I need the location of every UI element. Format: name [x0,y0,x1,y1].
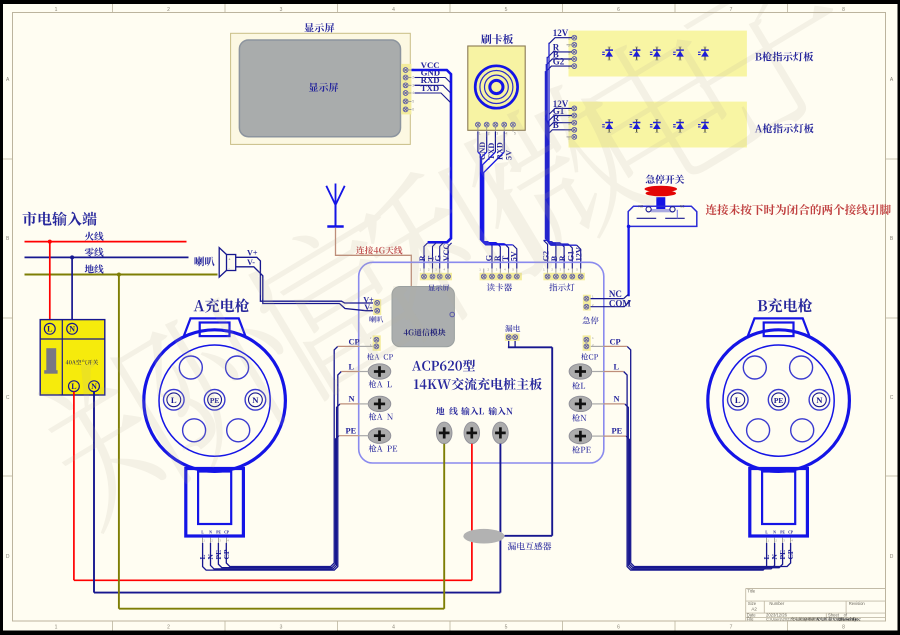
svg-text:2: 2 [167,7,170,13]
svg-text:2: 2 [412,76,414,80]
svg-text:V-: V- [247,258,255,267]
svg-text:V+: V+ [247,248,258,257]
svg-text:-: - [229,266,230,270]
svg-text:N: N [773,530,776,534]
svg-text:CP: CP [224,530,230,534]
svg-text:14KW: 14KW [803,616,814,621]
svg-text:5: 5 [505,624,508,630]
svg-text:G2: G2 [553,57,565,67]
svg-text:6: 6 [412,107,414,111]
svg-text:N: N [252,395,259,405]
svg-text:6: 6 [617,624,620,630]
svg-text:+: + [229,258,231,262]
svg-text:7: 7 [730,7,733,13]
svg-text:CP: CP [788,530,794,534]
svg-text:1: 1 [55,624,58,630]
svg-text:Revision: Revision [849,601,866,606]
svg-text:PE: PE [780,530,785,534]
svg-text:5: 5 [514,132,516,136]
svg-text:N: N [614,395,620,404]
svg-text:3: 3 [280,7,283,13]
svg-text:8: 8 [842,7,845,13]
svg-text:N: N [349,395,355,404]
svg-text:TXD: TXD [421,83,440,93]
svg-text:5: 5 [505,7,508,13]
svg-text:4: 4 [392,7,395,13]
svg-text:PE: PE [216,530,221,534]
svg-text:File: File [747,616,754,621]
svg-text:N: N [209,530,212,534]
svg-text:N: N [816,395,823,405]
svg-text:B: B [553,120,559,130]
svg-text:5V: 5V [509,251,518,261]
svg-text:1: 1 [55,7,58,13]
svg-text:6: 6 [617,7,620,13]
svg-text:PE: PE [612,426,623,435]
svg-text:C: C [890,395,894,401]
svg-text:NO: NO [639,205,644,209]
svg-text:C: C [6,395,10,401]
svg-text:3: 3 [280,624,283,630]
svg-text:Number: Number [769,601,784,606]
svg-text:PE: PE [774,396,784,405]
svg-text:Size: Size [748,601,757,606]
svg-text:Title: Title [747,588,755,593]
svg-text:7: 7 [730,624,733,630]
svg-text:A2: A2 [751,606,757,611]
svg-text:NC: NC [680,205,685,209]
svg-text:L: L [735,395,741,405]
svg-text:8: 8 [842,624,845,630]
svg-text:D: D [6,554,10,560]
svg-text:N: N [69,325,75,334]
svg-text:PE: PE [346,426,357,435]
svg-text:L: L [614,362,620,371]
svg-text:L: L [47,325,52,334]
svg-text:CP: CP [610,338,621,347]
svg-text:L: L [71,382,76,391]
svg-text:TXD: TXD [487,143,496,160]
svg-text:12V: 12V [575,247,584,261]
svg-text:4: 4 [412,91,414,95]
svg-text:N: N [91,382,97,391]
svg-text:Drawn By:: Drawn By: [839,616,858,621]
svg-text:3: 3 [496,132,498,136]
svg-text:D: D [890,554,894,560]
svg-text:4: 4 [392,624,395,630]
svg-text:12V: 12V [553,28,569,38]
svg-text:2: 2 [167,624,170,630]
svg-text:3: 3 [412,83,414,87]
svg-text:5: 5 [412,99,414,103]
